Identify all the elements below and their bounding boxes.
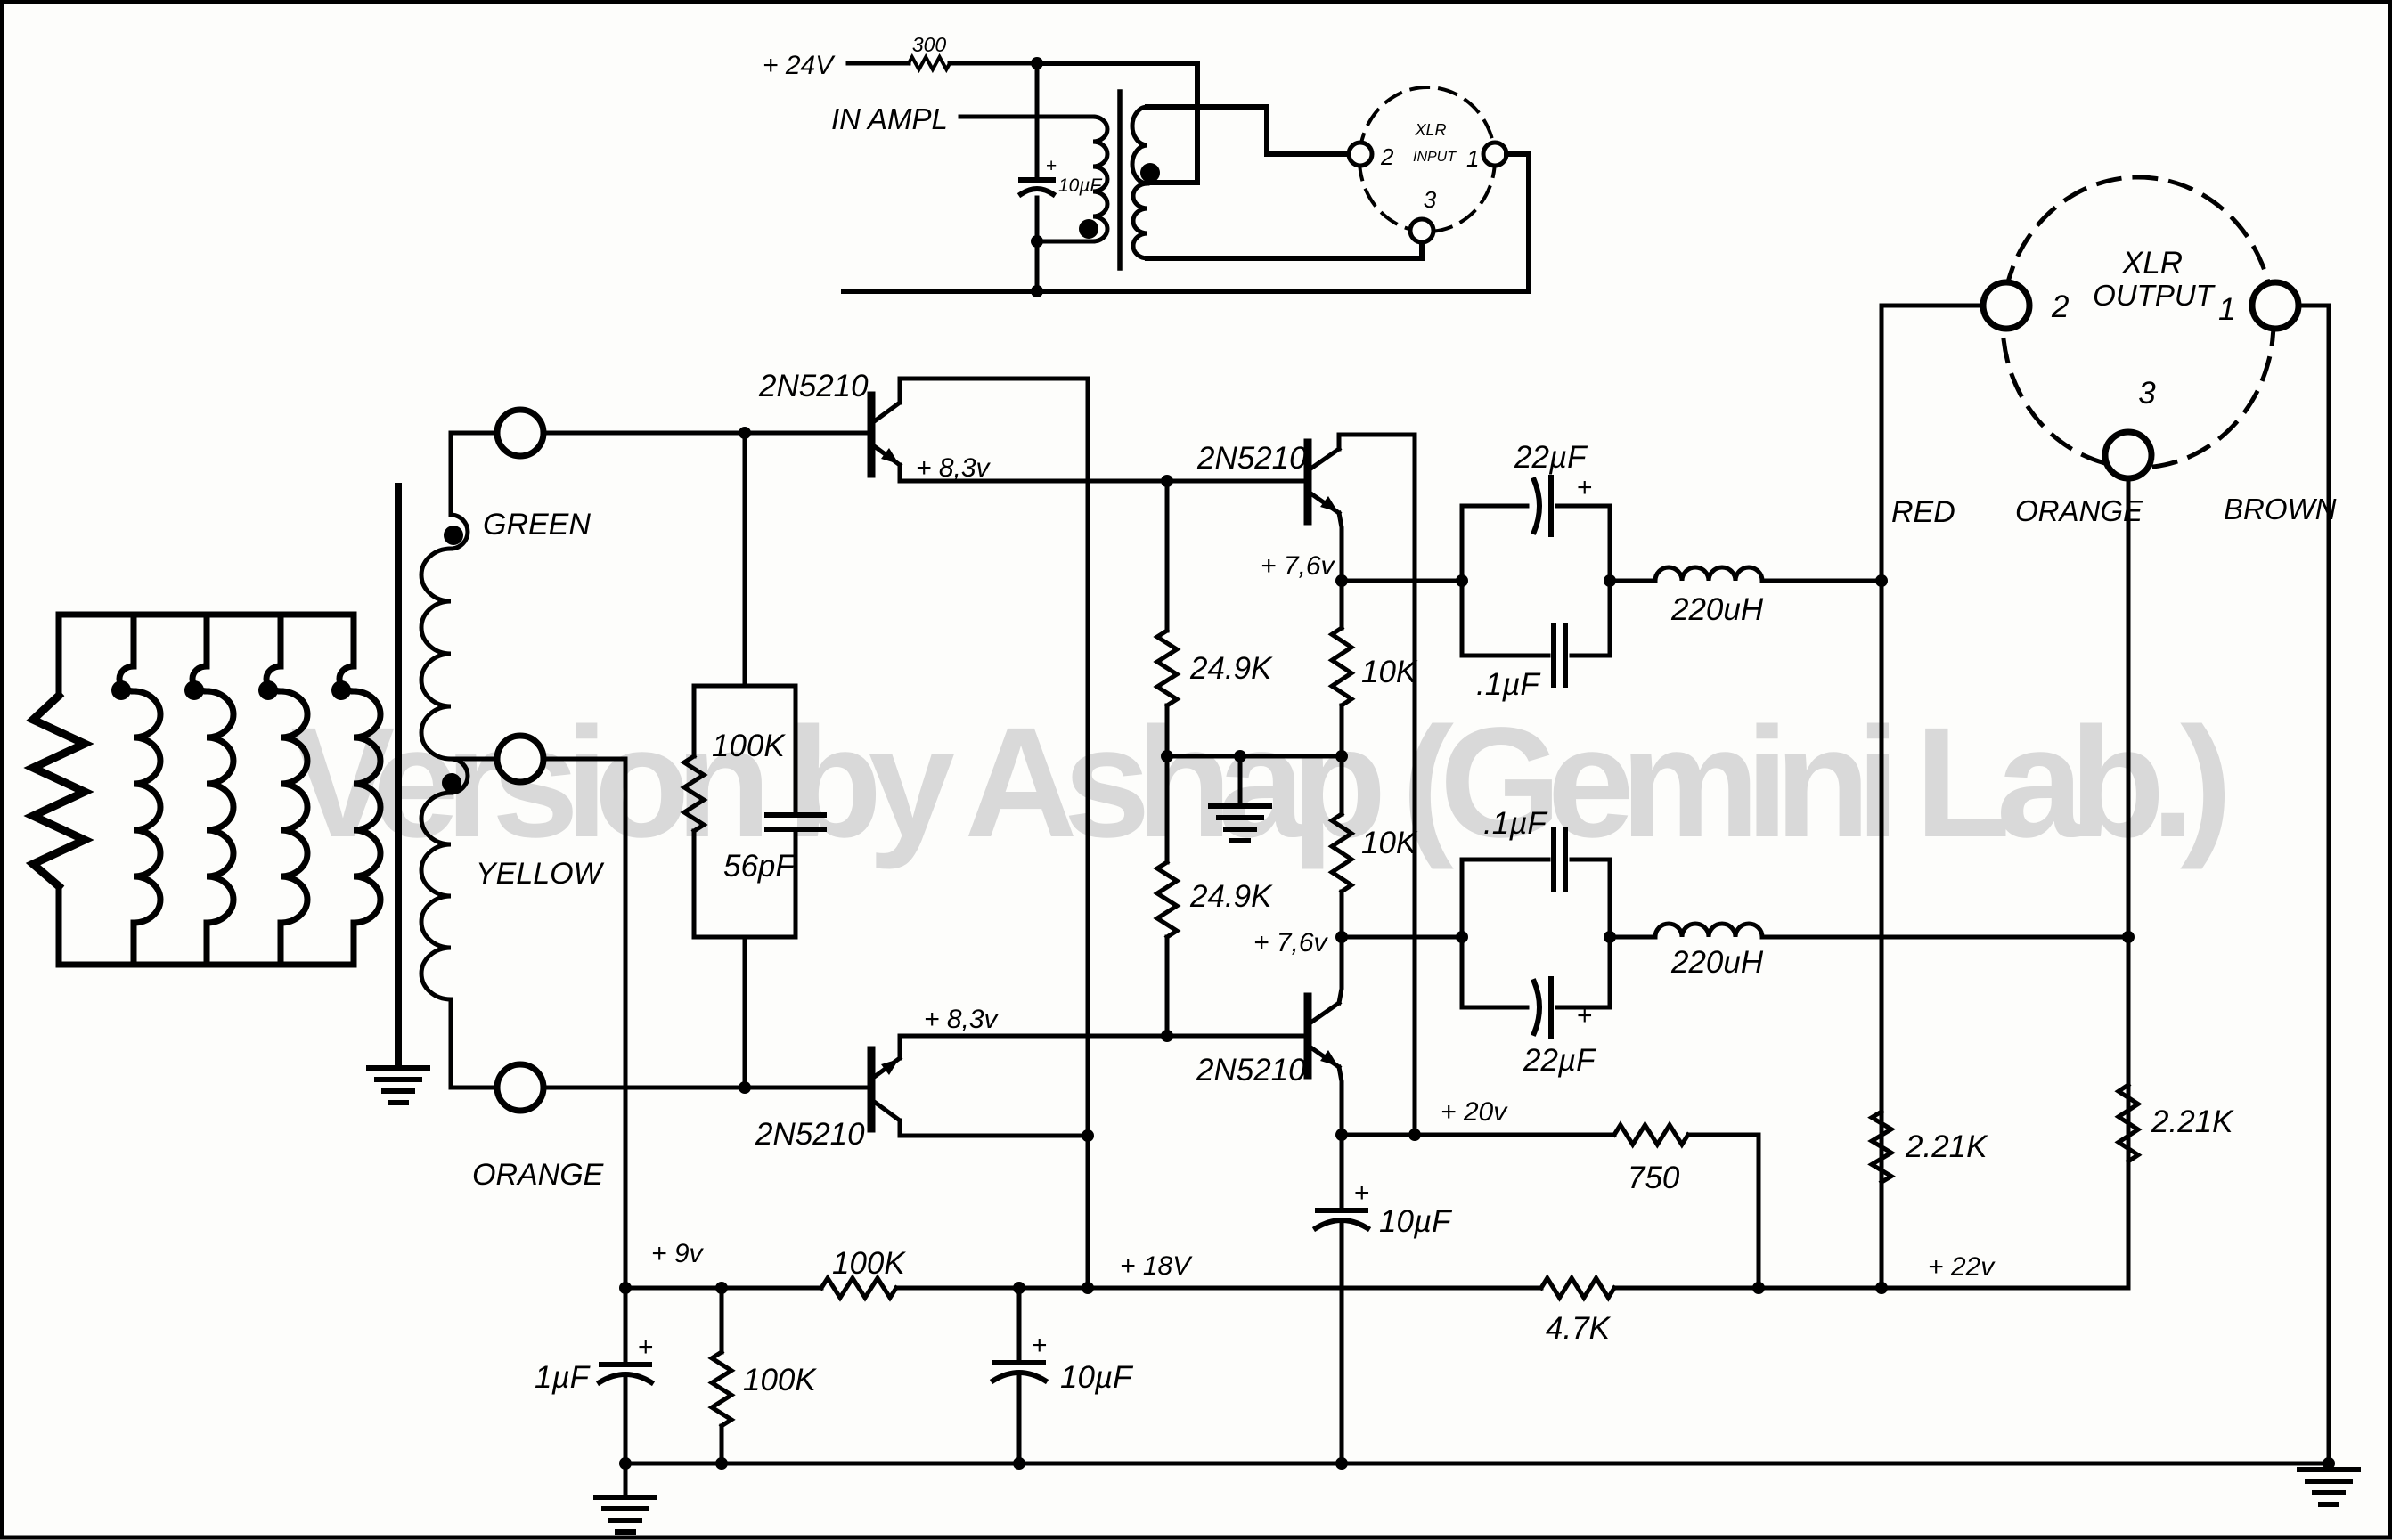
wire Q4 emitter to +20v node — [1339, 1067, 1342, 1135]
svg-text:XLR: XLR — [2121, 246, 2183, 281]
node W BROWN rail to ground — [2323, 1457, 2335, 1470]
svg-text:.1µF: .1µF — [1476, 667, 1541, 702]
svg-text:24.9K: 24.9K — [1189, 879, 1273, 914]
svg-text:+: + — [1046, 156, 1057, 176]
node C junction on input ground rail — [1031, 285, 1043, 297]
node S right bottom filter — [1604, 931, 1616, 943]
node O junction Q3 collector rail on +20v row — [1408, 1129, 1421, 1141]
terminal GREEN — [451, 431, 497, 436]
svg-text:+ 24V: + 24V — [763, 51, 836, 80]
node L junction 10K chain mid — [1335, 750, 1348, 762]
bottom filter box — [1462, 860, 1610, 1007]
transistor Q3 2N5210 — [1304, 443, 1312, 521]
svg-text:22µF: 22µF — [1514, 440, 1588, 475]
wire bottom filter row — [1342, 935, 1462, 940]
wire IN AMPL to T1 primary — [960, 115, 1089, 119]
wire node D down to feedback network — [743, 433, 747, 685]
J1 pin 3 — [1410, 219, 1433, 242]
node AB junction 750 drop — [1752, 1282, 1765, 1294]
ground at divider midpoint — [1238, 756, 1243, 806]
node G junction 24.9K chain on Q3 base rail — [1161, 475, 1173, 487]
node Y junction 100K vertical — [715, 1282, 728, 1294]
svg-text:2N5210: 2N5210 — [1196, 441, 1307, 476]
node E junction on ORANGE row — [739, 1081, 751, 1094]
wire +9v row — [625, 1286, 821, 1291]
wire feedback network to ORANGE row — [743, 937, 747, 1088]
svg-text:10K: 10K — [1361, 826, 1418, 860]
svg-text:2N5210: 2N5210 — [1196, 1053, 1306, 1088]
connector J1 XLR INPUT dashed circle — [1359, 87, 1495, 232]
svg-text:YELLOW: YELLOW — [476, 857, 605, 891]
node Q right top filter — [1604, 574, 1616, 587]
wire divider mid to 10K chain — [1167, 754, 1342, 759]
T2 primary winding 1 phase dot — [111, 680, 131, 700]
J1 pin 2 — [1349, 143, 1372, 166]
svg-text:2: 2 — [2051, 289, 2069, 324]
node U junction L2 on ORANGE rail — [2122, 931, 2135, 943]
wire T1 secondary bottom to XLR input pin3 — [1147, 243, 1422, 258]
T1 secondary phase dot — [1140, 163, 1160, 183]
inductor L1 220uH — [1610, 579, 1655, 583]
capacitor C3 10uF at +20v node — [1340, 1135, 1344, 1207]
wire +20v node to 750 — [1342, 1133, 1614, 1137]
resistor R6 10K — [1340, 756, 1344, 814]
svg-text:100K: 100K — [832, 1246, 906, 1281]
wire Q3 collector over to +20v rail — [1339, 435, 1415, 1135]
svg-text:+ 7,6v: + 7,6v — [1261, 551, 1336, 581]
svg-text:10µF: 10µF — [1379, 1204, 1453, 1239]
svg-text:+ 20v: + 20v — [1441, 1097, 1508, 1127]
svg-text:2N5210: 2N5210 — [755, 1117, 865, 1152]
svg-text:1: 1 — [1466, 145, 1479, 172]
J2 pin 3 — [2105, 432, 2151, 478]
node V +22v node — [1875, 1282, 1888, 1294]
wire T1 secondary tap — [1147, 180, 1197, 185]
node K Q3 emitter / top filter row — [1335, 574, 1348, 587]
capacitor C7 22uF — [1534, 982, 1539, 1033]
svg-text:.1µF: .1µF — [1483, 806, 1548, 841]
feedback network box wires — [694, 686, 796, 937]
svg-text:+: + — [1354, 1178, 1370, 1208]
capacitor C2 56pF — [767, 815, 824, 829]
wire J2 pin3 to ORANGE rail — [2127, 478, 2131, 1288]
svg-text:10µF: 10µF — [1060, 1360, 1134, 1395]
svg-text:RED: RED — [1891, 495, 1955, 529]
svg-text:OUTPUT: OUTPUT — [2093, 279, 2216, 312]
T2 primary winding 1 — [119, 615, 134, 691]
resistor R7 750 — [1614, 1125, 1688, 1145]
capacitor C4 22uF — [1534, 480, 1539, 532]
transformer T1 primary winding — [960, 115, 1093, 119]
transformer T2 primary block outline — [59, 615, 354, 965]
capacitor C8 1uF — [624, 1288, 628, 1361]
connector J2 XLR OUTPUT dashed circle — [2003, 177, 2274, 468]
node P left top filter — [1456, 574, 1468, 587]
top filter box — [1462, 506, 1610, 656]
resistor R10 100K horizontal — [821, 1278, 896, 1298]
wire +24V to R1 — [848, 61, 909, 66]
node X +9v node — [619, 1282, 632, 1294]
resistor R9 2.21K in ORANGE rail — [2119, 1085, 2138, 1161]
svg-text:+ 22v: + 22v — [1928, 1252, 1996, 1282]
svg-text:2: 2 — [1380, 143, 1394, 170]
svg-text:+ 7,6v: + 7,6v — [1253, 928, 1329, 957]
T2 primary winding 4 phase dot — [331, 680, 351, 700]
resistor R-load zigzag on T2 left edge — [33, 696, 85, 886]
svg-text:3: 3 — [2138, 376, 2156, 411]
resistor R2 100K feedback — [684, 756, 704, 831]
wire J2 pin1 to BROWN rail — [2298, 306, 2329, 1463]
svg-text:GREEN: GREEN — [483, 508, 591, 542]
resistor R11 4.7K — [1541, 1278, 1614, 1298]
node T junction L1 on RED rail — [1875, 574, 1888, 587]
capacitor C9 10uF lower — [1017, 1288, 1022, 1359]
node R left bottom filter — [1456, 931, 1468, 943]
ground under T2 core — [369, 1068, 428, 1103]
node M Q4 collector / bottom filter row — [1335, 931, 1348, 943]
svg-text:4.7K: 4.7K — [1546, 1311, 1612, 1346]
node N +20v node — [1335, 1129, 1348, 1141]
J2 pin 1 — [2252, 282, 2298, 329]
inductor L2 220uH — [1610, 935, 1655, 940]
wire Q2 collector to +18V rail — [900, 1120, 1088, 1136]
node AA +18V junction — [1082, 1282, 1094, 1294]
wire R1 to node A — [950, 61, 1037, 66]
svg-text:22µF: 22µF — [1523, 1043, 1597, 1078]
svg-text:+ 18V: + 18V — [1120, 1251, 1193, 1281]
svg-text:+ 9v: + 9v — [651, 1239, 705, 1268]
wire Q1 emitter to Q3 base rail — [900, 465, 1308, 481]
resistor R8 2.21K in RED rail — [1872, 1112, 1891, 1182]
svg-text:+: + — [638, 1332, 654, 1362]
ground rail bottom — [625, 1462, 2329, 1466]
wire YELLOW tap down to +9v node — [543, 759, 625, 1288]
svg-text:100K: 100K — [743, 1363, 817, 1397]
T2 secondary YELLOW phase dot — [442, 773, 461, 793]
svg-text:100K: 100K — [712, 729, 786, 763]
wire +22v row — [1882, 1286, 2128, 1291]
resistor R1 300 — [909, 57, 950, 69]
svg-text:220uH: 220uH — [1670, 592, 1764, 627]
capacitor C1 10uF — [1035, 63, 1040, 176]
transformer T2 core — [395, 486, 402, 1066]
svg-text:2N5210: 2N5210 — [758, 369, 869, 403]
wire J2 pin2 to RED rail — [1882, 306, 1983, 1288]
svg-text:+ 8,3v: + 8,3v — [916, 453, 992, 483]
svg-text:+: + — [1032, 1331, 1048, 1360]
transistor Q1 2N5210 — [868, 395, 876, 474]
resistor R5 10K — [1340, 581, 1344, 628]
T2 secondary winding YELLOW section — [451, 759, 468, 793]
resistor R4 24.9K — [1165, 756, 1170, 862]
wire top filter row — [1342, 579, 1462, 583]
node A junction — [1031, 57, 1043, 69]
svg-text:750: 750 — [1628, 1161, 1680, 1195]
svg-text:300: 300 — [912, 33, 947, 56]
transistor Q4 2N5210 — [1304, 997, 1312, 1075]
svg-text:10K: 10K — [1361, 655, 1418, 689]
svg-text:56pF: 56pF — [723, 849, 796, 884]
T2 primary winding 3 phase dot — [258, 680, 278, 700]
T2 secondary winding GREEN section — [451, 433, 468, 549]
svg-text:+: + — [1577, 473, 1593, 502]
capacitor C5 .1uF — [1554, 626, 1565, 685]
T2 primary winding 2 — [192, 615, 207, 691]
node F junction Q2 collector on +18V rail — [1082, 1129, 1094, 1142]
svg-text:ORANGE: ORANGE — [2015, 494, 2143, 527]
wire node A to T1 secondary tap — [1037, 63, 1197, 183]
T2 primary winding 4 — [339, 615, 354, 691]
svg-text:220uH: 220uH — [1670, 945, 1764, 980]
resistor R12 100K vertical — [720, 1288, 724, 1352]
wire GREEN to Q1 base — [543, 431, 869, 436]
T2 primary winding 2 phase dot — [184, 680, 204, 700]
capacitor C6 .1uF — [1554, 830, 1565, 889]
svg-text:+ 8,3v: + 8,3v — [924, 1005, 1000, 1034]
svg-text:2.21K: 2.21K — [2151, 1104, 2234, 1139]
T2 secondary GREEN phase dot — [444, 526, 463, 545]
ground at 1uF — [596, 1497, 655, 1532]
T1 primary phase dot — [1079, 219, 1098, 239]
node B junction C1 to T1 primary bottom — [1031, 235, 1043, 248]
wire Q1 collector to +18V rail — [900, 379, 1088, 1288]
T2 primary winding 3 — [266, 615, 281, 691]
transistor Q2 2N5210 — [868, 1050, 876, 1129]
svg-text:1: 1 — [2218, 292, 2235, 327]
wire Q4 collector up to bottom filter row — [1339, 937, 1342, 1003]
terminal YELLOW — [451, 757, 497, 762]
transformer T1 secondary winding — [1132, 107, 1147, 183]
svg-text:1µF: 1µF — [535, 1360, 592, 1395]
svg-text:24.9K: 24.9K — [1189, 651, 1273, 686]
J1 pin 1 — [1483, 143, 1506, 166]
wire J1 pin1 to ground rail of input stage — [844, 154, 1529, 291]
ground at BROWN rail bottom — [2299, 1470, 2358, 1504]
wire T1 secondary top to XLR input pin2 — [1147, 107, 1348, 154]
resistor R3 24.9K — [1165, 481, 1170, 631]
node H junction mid divider — [1161, 750, 1173, 762]
wire Q2 emitter to Q4 base rail — [900, 1036, 1308, 1058]
wire ORANGE to Q2 base — [545, 1086, 869, 1090]
node Z junction C9 10uF — [1013, 1282, 1025, 1294]
svg-text:INPUT: INPUT — [1413, 150, 1457, 165]
node D junction feedback to Q1 base — [739, 427, 751, 439]
wire 750 down to +18V row — [1688, 1135, 1759, 1288]
svg-text:BROWN: BROWN — [2224, 493, 2337, 526]
svg-text:IN AMPL: IN AMPL — [831, 102, 948, 135]
svg-text:+: + — [1577, 1001, 1593, 1031]
transformer T1 core — [1117, 92, 1123, 268]
J2 pin 2 — [1983, 282, 2029, 329]
svg-text:ORANGE: ORANGE — [472, 1158, 604, 1192]
node I junction ground stem — [1234, 750, 1246, 762]
wire Q3 emitter to filter node — [1339, 513, 1342, 581]
terminal ORANGE — [451, 1086, 497, 1090]
svg-text:3: 3 — [1424, 186, 1437, 213]
node J junction 24.9K chain on Q4 base rail — [1161, 1030, 1173, 1042]
svg-text:XLR: XLR — [1414, 121, 1446, 139]
svg-text:2.21K: 2.21K — [1905, 1129, 1988, 1164]
